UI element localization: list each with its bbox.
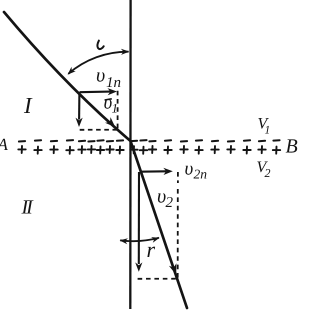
label angle i (97, 41, 103, 49)
plus sign (interface charge) (50, 146, 57, 153)
svg-text:I: I (23, 93, 33, 118)
incident ray v1 (4, 12, 131, 141)
dashed rectangle (v2 parallelogram) (138, 172, 178, 279)
refracted ray v2 (131, 141, 188, 308)
arc angle r (refraction) (120, 238, 159, 241)
minus sign (interface charge) (165, 139, 171, 141)
vector v2p (horizontal component, medium 2) (140, 170, 166, 172)
minus sign (interface charge) (228, 140, 234, 142)
minus sign (interface charge) (149, 140, 155, 142)
minus sign (interface charge) (212, 140, 218, 142)
dashed rectangle (v1 parallelogram) (80, 91, 118, 130)
svg-text:A: A (0, 135, 9, 154)
arrowhead of vector v1 on ray (105, 117, 115, 127)
plus sign (interface charge) (116, 147, 123, 154)
minus sign (interface charge) (117, 139, 123, 141)
minus sign (interface charge) (273, 139, 279, 141)
plus sign (interface charge) (97, 147, 104, 154)
minus sign (interface charge) (51, 140, 57, 142)
svg-text:B: B (286, 136, 298, 158)
plus sign (interface charge) (66, 147, 73, 154)
plus sign (interface charge) (78, 146, 85, 153)
arrowhead of vector v2 on ray (169, 263, 177, 275)
plus sign (interface charge) (34, 147, 41, 154)
plus sign (interface charge) (273, 147, 280, 154)
minus sign (interface charge) (35, 139, 41, 141)
svg-text:1: 1 (265, 125, 271, 137)
minus sign (interface charge) (79, 140, 85, 142)
plus sign (interface charge) (88, 146, 95, 153)
svg-text:2: 2 (166, 195, 174, 211)
svg-text:1п: 1п (106, 75, 121, 91)
minus sign (interface charge) (196, 139, 202, 141)
minus sign (interface charge) (140, 139, 146, 141)
plus sign (interface charge) (243, 147, 250, 154)
plus sign (interface charge) (106, 146, 113, 153)
minus sign (interface charge) (19, 140, 25, 142)
minus sign (interface charge) (131, 140, 137, 142)
svg-text:υ: υ (96, 65, 105, 87)
svg-text:2п: 2п (194, 167, 208, 182)
minus sign (interface charge) (181, 140, 187, 142)
plus sign (interface charge) (18, 146, 25, 153)
plus sign (interface charge) (211, 146, 218, 153)
plus sign (interface charge) (149, 146, 156, 153)
minus sign (interface charge) (88, 140, 94, 142)
vector v1p (horizontal component, medium 1) (80, 91, 111, 94)
normal line (vertical) (129, 0, 132, 309)
svg-text:1: 1 (112, 101, 119, 116)
plus sign (interface charge) (195, 147, 202, 154)
minus sign (interface charge) (107, 140, 113, 142)
svg-text:υ: υ (185, 159, 194, 180)
plus sign (interface charge) (258, 146, 265, 153)
minus sign (interface charge) (97, 139, 103, 141)
minus sign (interface charge) (259, 140, 265, 142)
arc angle i (incidence) (68, 52, 128, 74)
minus sign (interface charge) (67, 139, 73, 141)
vector v2 normal component (downward arrow) (138, 172, 140, 264)
plus sign (interface charge) (227, 146, 234, 153)
plus sign (interface charge) (130, 146, 137, 153)
plus sign (interface charge) (164, 147, 171, 154)
vector v1 normal component (downward arrow) (78, 92, 80, 119)
plus sign (interface charge) (180, 146, 187, 153)
svg-text:2: 2 (265, 166, 271, 180)
svg-text:r: r (147, 237, 156, 262)
plus sign (interface charge) (140, 147, 147, 154)
minus sign (interface charge) (244, 139, 250, 141)
